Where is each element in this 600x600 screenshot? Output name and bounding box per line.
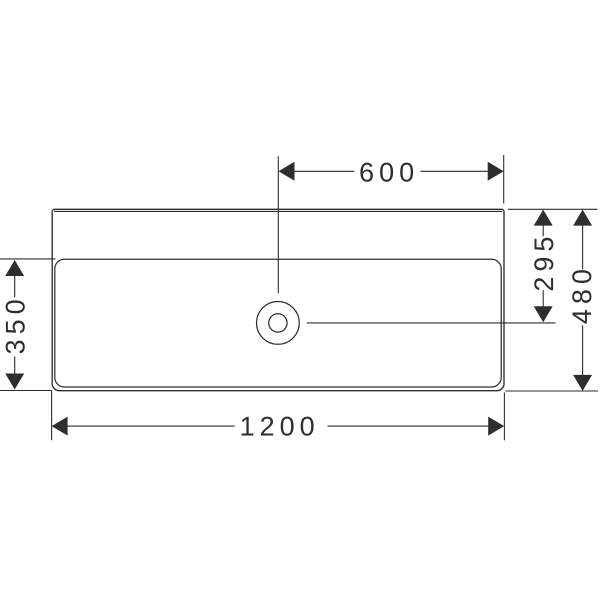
dim 1200 right arrow bbox=[488, 417, 504, 436]
dim 480 dimension line bbox=[582, 225, 584, 375]
dim 480 top arrow bbox=[573, 210, 592, 226]
dim 600 right extension line bbox=[503, 155, 505, 204]
dim 350 bottom extension line bbox=[0, 390, 52, 392]
dim 350 bottom arrow bbox=[5, 374, 24, 390]
dim 1200 left extension line bbox=[51, 391, 53, 440]
dim 600 dimension line bbox=[294, 170, 488, 172]
dim 600 left extension line bbox=[277, 156, 279, 293]
basin inner outline bbox=[55, 259, 501, 387]
dim 600 label bbox=[360, 163, 413, 182]
dim 350 label bbox=[6, 300, 25, 353]
dim 295 dimension line bbox=[542, 225, 544, 306]
dim 1200 label bbox=[242, 417, 314, 436]
dim 295 top arrow bbox=[534, 210, 553, 226]
dim 1200 right extension line bbox=[503, 393, 505, 441]
drain level extension line for 295 bbox=[307, 322, 556, 324]
dim 480 bottom arrow bbox=[573, 375, 592, 391]
drain inner circle bbox=[269, 314, 287, 332]
dim 350 dimension line bbox=[14, 276, 16, 374]
shared top-right extension line for 295 and 480 bbox=[508, 208, 598, 210]
drain outer circle bbox=[257, 302, 300, 345]
dim 600 left arrow bbox=[279, 162, 295, 181]
dim 1200 dimension line bbox=[67, 425, 488, 427]
dim 480 label bbox=[572, 270, 591, 323]
dim 350 top arrow bbox=[5, 260, 24, 276]
dim 600 right arrow bbox=[488, 162, 504, 181]
bottom-right extension line for 480 bbox=[506, 390, 599, 392]
dim 295 label bbox=[534, 238, 553, 291]
dim 295 bottom arrow bbox=[534, 306, 553, 322]
washbasin outer outline bbox=[52, 209, 504, 390]
dim 1200 left arrow bbox=[52, 417, 68, 436]
washbasin rim inner edge line bbox=[54, 210, 502, 212]
dim 350 top extension line bbox=[0, 258, 55, 260]
